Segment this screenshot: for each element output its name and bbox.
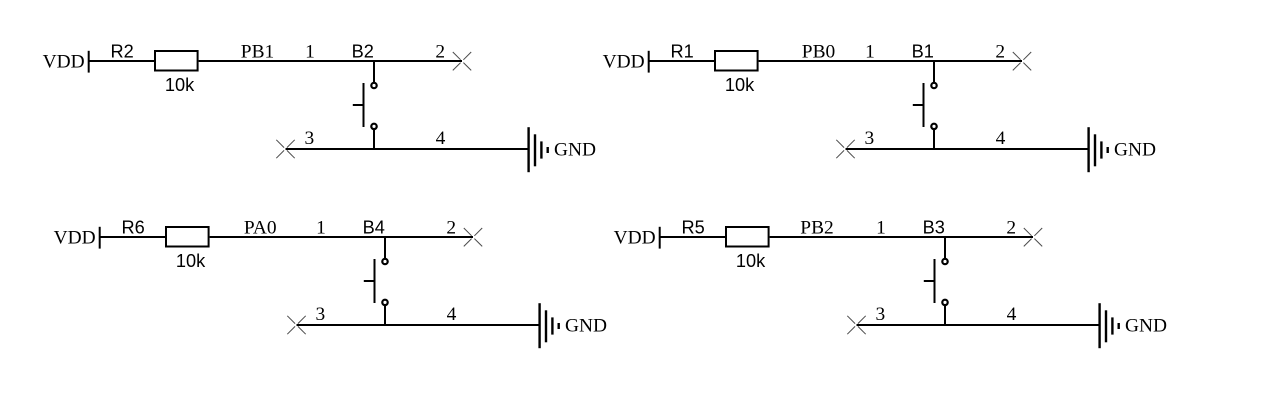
ground symbol	[529, 127, 548, 172]
svg-text:GND: GND	[1114, 140, 1156, 161]
VDD power port bar	[88, 51, 90, 73]
no-connect cross on pin 2	[453, 52, 471, 70]
svg-text:B1: B1	[912, 42, 934, 62]
no-connect cross on pin 3	[287, 316, 305, 334]
wire R6 to pushbutton B4 pin 1 (net PA0)	[210, 236, 473, 238]
pushbutton B4 actuator bar	[374, 259, 376, 303]
svg-text:4: 4	[996, 128, 1006, 149]
VDD power port bar	[99, 227, 101, 249]
svg-text:VDD: VDD	[603, 51, 645, 72]
svg-text:3: 3	[304, 128, 314, 149]
svg-text:2: 2	[435, 41, 445, 62]
svg-text:B2: B2	[352, 42, 374, 62]
no-connect cross on pin 2	[1013, 52, 1031, 70]
svg-text:4: 4	[1007, 304, 1017, 325]
resistor R1 body	[715, 51, 758, 71]
svg-text:2: 2	[1006, 217, 1016, 238]
wire B3 bottom contact to ground rail	[944, 306, 946, 327]
pushbutton B3 top contact circle	[942, 259, 947, 264]
ground symbol	[1089, 127, 1108, 172]
svg-text:R6: R6	[121, 218, 144, 238]
ground symbol	[1100, 303, 1119, 348]
svg-text:B3: B3	[923, 218, 945, 238]
wire R5 to pushbutton B3 pin 1 (net PB2)	[770, 236, 1033, 238]
wire net rail down to B4 top contact	[384, 237, 386, 258]
svg-text:3: 3	[315, 304, 325, 325]
resistor R6 body	[166, 227, 209, 247]
svg-text:2: 2	[446, 217, 456, 238]
wire VDD to R1	[649, 60, 715, 62]
wire net rail down to B3 top contact	[944, 237, 946, 258]
pushbutton B4 bottom contact circle	[382, 300, 387, 305]
svg-text:10k: 10k	[176, 251, 206, 271]
no-connect cross on pin 2	[1024, 228, 1042, 246]
pushbutton B3 actuator stem	[924, 280, 935, 282]
wire VDD to R5	[660, 236, 726, 238]
ground rail wire (pin 3 to GND)	[286, 148, 529, 150]
pushbutton B2 actuator bar	[363, 83, 365, 127]
svg-text:2: 2	[995, 41, 1005, 62]
svg-text:10k: 10k	[736, 251, 766, 271]
svg-text:4: 4	[447, 304, 457, 325]
svg-text:GND: GND	[565, 316, 607, 337]
VDD power port bar	[659, 227, 661, 249]
svg-text:4: 4	[436, 128, 446, 149]
svg-text:1: 1	[316, 217, 326, 238]
wire B2 bottom contact to ground rail	[373, 130, 375, 151]
svg-text:R1: R1	[670, 42, 693, 62]
svg-text:B4: B4	[363, 218, 385, 238]
ground rail wire (pin 3 to GND)	[846, 148, 1089, 150]
svg-text:GND: GND	[1125, 316, 1167, 337]
no-connect cross on pin 3	[836, 140, 854, 158]
wire net rail down to B1 top contact	[933, 61, 935, 82]
svg-text:VDD: VDD	[43, 51, 85, 72]
ground rail wire (pin 3 to GND)	[297, 324, 540, 326]
svg-text:3: 3	[864, 128, 874, 149]
wire R1 to pushbutton B1 pin 1 (net PB0)	[759, 60, 1022, 62]
svg-text:R5: R5	[681, 218, 704, 238]
VDD power port bar	[648, 51, 650, 73]
svg-text:1: 1	[865, 41, 875, 62]
svg-text:10k: 10k	[165, 75, 195, 95]
svg-text:PB2: PB2	[800, 217, 833, 238]
svg-text:3: 3	[875, 304, 885, 325]
pushbutton B1 actuator stem	[913, 104, 924, 106]
svg-text:PA0: PA0	[244, 217, 277, 238]
pushbutton B1 top contact circle	[931, 83, 936, 88]
wire VDD to R6	[100, 236, 166, 238]
svg-text:1: 1	[305, 41, 315, 62]
wire B1 bottom contact to ground rail	[933, 130, 935, 151]
svg-text:1: 1	[876, 217, 886, 238]
wire VDD to R2	[89, 60, 155, 62]
pushbutton B2 actuator stem	[353, 104, 364, 106]
pushbutton B3 bottom contact circle	[942, 300, 947, 305]
wire R2 to pushbutton B2 pin 1 (net PB1)	[199, 60, 462, 62]
pushbutton B4 actuator stem	[364, 280, 375, 282]
pushbutton B1 bottom contact circle	[931, 124, 936, 129]
pushbutton B4 top contact circle	[382, 259, 387, 264]
resistor R5 body	[726, 227, 769, 247]
svg-text:VDD: VDD	[614, 227, 656, 248]
wire B4 bottom contact to ground rail	[384, 306, 386, 327]
svg-text:10k: 10k	[725, 75, 755, 95]
no-connect cross on pin 3	[847, 316, 865, 334]
pushbutton B3 actuator bar	[934, 259, 936, 303]
pushbutton B2 top contact circle	[371, 83, 376, 88]
resistor R2 body	[155, 51, 198, 71]
pushbutton B1 actuator bar	[923, 83, 925, 127]
wire net rail down to B2 top contact	[373, 61, 375, 82]
no-connect cross on pin 3	[276, 140, 294, 158]
pushbutton B2 bottom contact circle	[371, 124, 376, 129]
svg-text:PB0: PB0	[802, 41, 835, 62]
svg-text:VDD: VDD	[54, 227, 96, 248]
ground symbol	[540, 303, 559, 348]
no-connect cross on pin 2	[464, 228, 482, 246]
svg-text:R2: R2	[110, 42, 133, 62]
svg-text:GND: GND	[554, 140, 596, 161]
svg-text:PB1: PB1	[241, 41, 274, 62]
ground rail wire (pin 3 to GND)	[857, 324, 1100, 326]
